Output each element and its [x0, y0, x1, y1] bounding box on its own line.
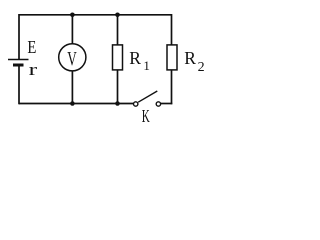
battery E,r: long positive plate [8, 59, 29, 61]
wire: left vertical upper (to battery) [18, 14, 20, 60]
wire: voltmeter branch upper [71, 15, 73, 44]
switch K: left terminal circle [134, 102, 138, 106]
switch K: right terminal circle [156, 102, 160, 106]
wire: voltmeter branch lower [71, 71, 73, 104]
node: junction dot top R1 branch [115, 13, 120, 18]
wire: switch right terminal to bottom-right corner [161, 103, 172, 105]
svg-text:r: r [29, 60, 38, 79]
voltmeter V: circle body [59, 44, 86, 71]
svg-text:E: E [27, 37, 36, 57]
svg-text:1: 1 [143, 58, 150, 73]
wire: top horizontal [19, 14, 172, 16]
svg-text:R: R [184, 48, 196, 68]
wire: R1 branch upper [117, 15, 119, 45]
switch K: lever arm (open) [138, 91, 157, 102]
wire: R2 branch lower (right side down to corner) [171, 70, 173, 105]
svg-text:2: 2 [198, 60, 205, 75]
battery E,r: short negative plate [13, 64, 24, 67]
node: junction dot bottom R1 branch [115, 101, 120, 106]
wire: R1 branch lower [117, 70, 119, 104]
node: junction dot top voltmeter branch [70, 13, 75, 18]
resistor R2: box [167, 45, 177, 70]
svg-text:V: V [67, 48, 77, 70]
wire: bottom horizontal (left to switch) [19, 103, 133, 105]
node: junction dot bottom voltmeter branch [70, 101, 75, 106]
wire: left vertical lower (battery to bottom) [18, 65, 20, 104]
wire: R2 branch upper [171, 14, 173, 45]
svg-text:K: K [142, 106, 150, 126]
resistor R1: box [113, 45, 123, 70]
svg-text:R: R [129, 48, 141, 68]
